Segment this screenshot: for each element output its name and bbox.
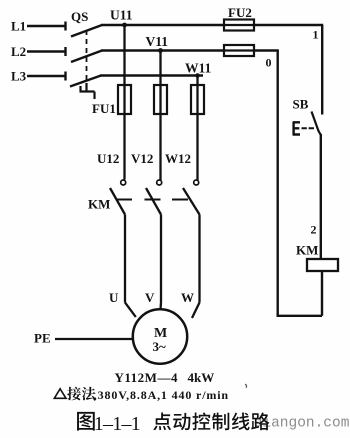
wire contact 2 to motor bbox=[160, 215, 162, 303]
fuse FU2 lower bbox=[224, 45, 254, 56]
svg-text:2: 2 bbox=[311, 223, 317, 237]
svg-text:SB: SB bbox=[293, 97, 309, 112]
svg-text:L2: L2 bbox=[11, 44, 26, 59]
fuse FU2 upper bbox=[224, 20, 254, 31]
svg-text:QS: QS bbox=[71, 9, 88, 24]
svg-text:L3: L3 bbox=[11, 69, 27, 84]
contactor KM main contact terminal 2 bbox=[157, 180, 162, 185]
QS fixed contact L2 bbox=[64, 47, 66, 56]
wire node0 down bbox=[277, 51, 279, 318]
QS blade pole 1 bbox=[71, 25, 102, 37]
fuse FU1 pole3 bbox=[191, 85, 204, 114]
svg-text:V11: V11 bbox=[146, 34, 169, 49]
QS fixed contact L3 bbox=[64, 72, 66, 81]
wire W lead bend bbox=[192, 303, 200, 319]
button SB actuator dashes bbox=[302, 127, 315, 129]
svg-text:3~: 3~ bbox=[153, 339, 167, 354]
QS fixed contact L1 bbox=[64, 22, 66, 31]
svg-text:4kW: 4kW bbox=[188, 370, 215, 385]
caption diandong kongzhi xianlu bbox=[153, 412, 171, 430]
button SB blade bbox=[312, 112, 319, 132]
svg-text:L1: L1 bbox=[11, 19, 26, 34]
svg-text:0: 0 bbox=[266, 56, 272, 70]
QS blade pole 2 bbox=[71, 51, 102, 63]
wire U11 to corner bbox=[254, 24, 323, 26]
svg-text:PE: PE bbox=[34, 331, 51, 346]
wire W11 rail bbox=[100, 74, 203, 76]
wire PE to motor bbox=[55, 338, 133, 340]
motor M 3~ bbox=[133, 309, 187, 363]
wire W11-W12 drop bbox=[196, 76, 198, 181]
caption tu bbox=[77, 412, 95, 431]
wire node1 down to SB bbox=[321, 25, 323, 115]
svg-text:Y112M—4: Y112M—4 bbox=[115, 370, 178, 385]
contactor KM main blade 3 bbox=[183, 188, 200, 215]
wire through FU2 upper bbox=[224, 24, 254, 26]
svg-text:W: W bbox=[181, 290, 194, 305]
wire control bottom bbox=[278, 315, 322, 317]
svg-text:V: V bbox=[145, 290, 155, 305]
junction V11 bbox=[158, 48, 163, 53]
text jiefa bbox=[67, 387, 81, 401]
svg-text:FU1: FU1 bbox=[92, 101, 116, 116]
svg-text:1: 1 bbox=[313, 28, 319, 42]
text delta symbol bbox=[54, 389, 66, 399]
svg-text:FU2: FU2 bbox=[228, 5, 252, 20]
KM linkage dashed bbox=[117, 199, 188, 201]
contactor KM main blade 2 bbox=[146, 188, 161, 215]
wire U11 rail bbox=[101, 24, 224, 26]
svg-text:W12: W12 bbox=[165, 151, 191, 166]
contactor KM main contact terminal 1 bbox=[121, 180, 126, 185]
wire SB to KM coil bbox=[320, 134, 322, 259]
wire L3 input bbox=[27, 75, 65, 77]
wire V11-V12 drop bbox=[159, 51, 161, 181]
wire L2 input bbox=[27, 50, 65, 52]
svg-text:V12: V12 bbox=[131, 151, 153, 166]
svg-text:U11: U11 bbox=[110, 8, 133, 23]
svg-text:,380V,8.8A,1 440 r/min: ,380V,8.8A,1 440 r/min bbox=[94, 388, 229, 402]
fuse FU1 pole1 bbox=[118, 85, 131, 114]
button SB actuator E bbox=[293, 122, 300, 136]
wire V11 to corner bbox=[254, 49, 279, 51]
QS handle bbox=[80, 83, 95, 99]
wire V lead bbox=[159, 303, 162, 310]
svg-text:KM: KM bbox=[296, 243, 318, 258]
svg-text:KM: KM bbox=[88, 197, 110, 212]
QS linkage dashed bbox=[86, 30, 88, 83]
svg-text:U12: U12 bbox=[97, 151, 119, 166]
button SB blade foot bbox=[318, 131, 321, 136]
wire through FU2 lower bbox=[224, 49, 254, 51]
wire U11-U12 drop bbox=[123, 25, 125, 180]
junction W11 bbox=[195, 73, 200, 78]
contactor KM coil bbox=[307, 259, 338, 271]
QS blade pole 3 bbox=[70, 76, 101, 87]
junction U11 bbox=[122, 23, 127, 28]
svg-text:1–1–1: 1–1–1 bbox=[94, 413, 140, 435]
wire U lead bend bbox=[125, 303, 136, 318]
contactor KM main contact terminal 3 bbox=[194, 180, 199, 185]
wire KM coil down bbox=[321, 271, 323, 316]
wire contact 1 to motor bbox=[124, 215, 126, 303]
svg-text:W11: W11 bbox=[185, 61, 212, 76]
stray mark bbox=[245, 384, 247, 388]
svg-text:U: U bbox=[109, 290, 119, 305]
wire contact 3 to motor bbox=[198, 215, 200, 303]
wire L1 input bbox=[27, 25, 65, 27]
fuse FU1 pole2 bbox=[154, 85, 167, 114]
contactor KM main blade 1 bbox=[110, 188, 125, 215]
wire V11 rail bbox=[101, 49, 224, 51]
